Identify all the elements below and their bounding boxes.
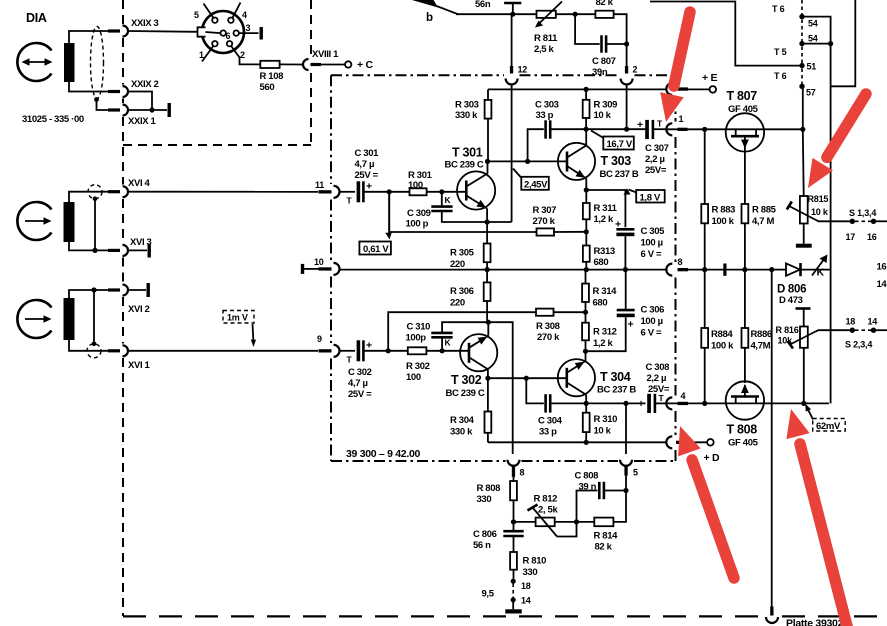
chassis terminal bar (XVI2)	[147, 283, 150, 297]
svg-text:K: K	[817, 267, 825, 279]
svg-text:R313: R313	[594, 246, 615, 257]
svg-text:BC 239 C: BC 239 C	[446, 388, 485, 399]
wire R302 to T302 base	[426, 350, 469, 352]
jack XVI 3	[123, 245, 129, 256]
T304 base rail	[488, 377, 567, 379]
svg-text:17: 17	[846, 232, 856, 242]
svg-text:R884: R884	[711, 329, 733, 340]
svg-text:4: 4	[242, 10, 247, 20]
node T302 emitter	[486, 320, 491, 325]
svg-text:62mV: 62mV	[816, 421, 841, 432]
label 0,61V box with leader	[359, 194, 391, 255]
svg-text:XXIX 1: XXIX 1	[128, 116, 157, 127]
svg-text:57: 57	[806, 88, 816, 98]
svg-text:C 310: C 310	[407, 322, 431, 333]
svg-text:S 1,3,4: S 1,3,4	[849, 208, 876, 218]
transistor T302	[460, 322, 497, 378]
svg-text:C 806: C 806	[473, 529, 497, 540]
jack 8 right	[666, 264, 672, 276]
wire pin to +C	[321, 64, 345, 66]
node R313/R314	[584, 267, 589, 272]
jack 8 bottom	[508, 460, 520, 466]
svg-text:39n: 39n	[592, 67, 608, 78]
svg-text:BC 237 B: BC 237 B	[597, 385, 636, 396]
svg-text:1m V: 1m V	[227, 313, 248, 323]
chassis terminal bar (XVI3)	[148, 244, 151, 258]
jack 5 lead	[625, 403, 627, 454]
svg-text:R 305: R 305	[450, 248, 475, 259]
node T302 collector	[485, 376, 490, 381]
svg-text:5: 5	[633, 468, 638, 478]
wire contact54 upper to bus	[802, 17, 831, 404]
wire cartridge bottom to XVI1	[69, 340, 108, 351]
label 2,45V box with leader	[513, 169, 549, 191]
svg-text:1,2 k: 1,2 k	[593, 338, 613, 349]
node C304 branch	[524, 376, 529, 381]
jack 4	[666, 397, 672, 409]
wire cartridge bottom to XXIX2	[69, 82, 108, 92]
potentiometer R811 2,5k	[535, 2, 562, 28]
svg-text:2,5 k: 2,5 k	[534, 44, 554, 55]
svg-text:10: 10	[314, 257, 324, 267]
svg-text:C 301: C 301	[355, 148, 380, 159]
R816 bottom lead	[803, 348, 805, 404]
svg-text:18: 18	[846, 317, 856, 327]
Platte return line	[771, 270, 773, 607]
svg-text:54: 54	[808, 34, 818, 44]
svg-text:R 812: R 812	[534, 494, 558, 505]
pin XXIX 1	[108, 108, 120, 111]
terminal bar stub on rail	[723, 264, 726, 276]
svg-text:+: +	[638, 398, 644, 410]
emitter to C305 wire	[586, 190, 625, 227]
module border left	[330, 75, 332, 461]
jack 12	[510, 66, 513, 74]
DIN connector keyway notch	[198, 28, 205, 36]
svg-text:56n: 56n	[475, 0, 491, 10]
emitter jog to jack 8 bottom	[488, 322, 512, 454]
terminal +E	[710, 86, 717, 93]
node R816 bottom / 62mV	[801, 401, 806, 406]
svg-text:8: 8	[520, 468, 525, 478]
chassis dashed line x=311 upper	[310, 0, 312, 56]
DIN pin 4	[228, 18, 233, 23]
wire XXIX1 to chassis	[128, 109, 167, 111]
svg-text:51: 51	[807, 62, 817, 72]
wire cartridge top to XXIX3	[69, 31, 108, 43]
svg-text:270 k: 270 k	[537, 332, 560, 343]
wire contact54 lower to bus	[802, 43, 831, 45]
label 1mV dashed box	[223, 311, 254, 324]
wire cartridge top to XVI2	[69, 290, 108, 298]
svg-text:+ C: + C	[357, 59, 373, 71]
svg-text:33 p: 33 p	[536, 110, 554, 121]
svg-text:K: K	[445, 195, 452, 205]
svg-text:5: 5	[194, 10, 199, 20]
svg-text:25V=: 25V=	[648, 384, 670, 395]
pin XXIX 2	[108, 90, 120, 93]
svg-text:18: 18	[521, 581, 531, 591]
jack XVIII 1	[303, 59, 309, 70]
stub terminal left of jack 10	[304, 268, 319, 270]
svg-text:T 808: T 808	[727, 423, 758, 437]
node R308 base branch	[386, 348, 391, 353]
node T301 emitter	[485, 219, 490, 224]
DIN pin 6	[221, 30, 226, 35]
svg-text:XXIX 3: XXIX 3	[131, 18, 159, 29]
svg-text:+ D: + D	[704, 452, 720, 464]
wire C302 to R302	[363, 350, 407, 352]
svg-text:16,7 V: 16,7 V	[607, 139, 633, 150]
jack XXIX 2	[123, 86, 129, 97]
transistor T808 GF405	[666, 381, 829, 419]
wire jack to +D	[687, 441, 707, 443]
marker b with arrow	[412, 0, 458, 24]
node R883/R884	[702, 267, 707, 272]
capacitor C310 100p	[431, 322, 488, 351]
DIN pin 1	[212, 41, 217, 46]
jack XVI 1	[123, 345, 128, 356]
node C807 left branch	[573, 12, 578, 17]
R815 ground	[796, 224, 812, 248]
svg-text:25V =: 25V =	[348, 389, 372, 400]
node T301 base branch	[387, 189, 392, 194]
wire XVI1 to module jack 9	[128, 350, 318, 352]
resistor R883 100k	[701, 129, 708, 269]
red arrow 1 (pin 1)	[660, 12, 690, 122]
node R305/R306	[485, 267, 490, 272]
resistor R310 10k	[583, 403, 590, 442]
svg-text:D 473: D 473	[779, 295, 803, 306]
svg-text:4: 4	[681, 391, 686, 401]
capacitor C307 2,2u	[637, 119, 666, 140]
wire R308 to R314/R312 node	[554, 311, 586, 313]
DIN connector circle	[202, 11, 244, 53]
svg-text:C 307: C 307	[645, 143, 669, 154]
jack 7	[666, 83, 672, 95]
svg-text:6 V =: 6 V =	[641, 328, 662, 339]
svg-text:560: 560	[260, 82, 275, 93]
jack XVI 2	[123, 285, 129, 296]
output rail (T303 collector node)	[550, 128, 645, 130]
pin 3 terminal bar	[260, 27, 263, 40]
svg-text:R 304: R 304	[450, 415, 475, 426]
capacitor 56n stub	[504, 3, 521, 14]
node C303 branch	[525, 159, 530, 164]
switch S1,3,4	[850, 219, 887, 224]
svg-text:220: 220	[450, 259, 465, 270]
svg-text:4,7 M: 4,7 M	[752, 216, 774, 227]
transistor T303	[558, 129, 595, 190]
svg-text:R 883: R 883	[712, 205, 736, 216]
svg-text:R 810: R 810	[523, 556, 547, 567]
svg-text:100 p: 100 p	[406, 219, 429, 230]
node R309 top	[584, 87, 589, 92]
svg-text:39 n: 39 n	[579, 482, 597, 493]
wire jack9 to C302	[340, 350, 356, 352]
contact 14	[511, 597, 516, 602]
svg-text:330 k: 330 k	[450, 427, 473, 438]
switch contact column dashed	[801, 0, 803, 84]
svg-text:4,7 µ: 4,7 µ	[355, 159, 375, 170]
DIN pin 2	[227, 41, 232, 46]
contact 51	[799, 63, 804, 68]
label 62mV dashed box with leader	[804, 404, 845, 432]
svg-text:1,8 V: 1,8 V	[640, 192, 661, 203]
node R310 bottom	[584, 440, 589, 445]
svg-text:330: 330	[523, 567, 538, 578]
svg-text:R 312: R 312	[593, 327, 617, 338]
switch S2,3,4	[850, 328, 887, 333]
switch gap 9,5	[512, 584, 514, 598]
svg-text:S 2,3,4: S 2,3,4	[845, 340, 872, 350]
svg-text:XVIII 1: XVIII 1	[312, 49, 339, 60]
shield tap dots and wire to XVI3	[93, 196, 98, 201]
svg-text:T: T	[347, 355, 353, 365]
node R812/R814	[574, 519, 579, 524]
node R885/R886	[742, 267, 747, 272]
svg-text:1: 1	[679, 114, 684, 124]
svg-text:33 p: 33 p	[539, 427, 557, 438]
jack 2	[625, 66, 628, 74]
svg-text:T 304: T 304	[600, 370, 631, 384]
svg-text:C 309: C 309	[407, 208, 431, 219]
jack Platte (bottom border)	[766, 617, 778, 623]
svg-text:R886: R886	[751, 329, 772, 340]
DIN pin 5	[212, 18, 217, 23]
wire cartridge top to XVI4	[69, 192, 108, 202]
svg-text:12: 12	[518, 65, 528, 75]
node K upper	[439, 189, 444, 194]
svg-text:1,2 k: 1,2 k	[594, 214, 614, 225]
marker K arrow	[812, 255, 828, 279]
terminal +D	[707, 439, 714, 446]
node R309 bottom	[584, 127, 589, 132]
wire 57 elbow to right box edge	[831, 0, 856, 86]
svg-text:2: 2	[240, 50, 245, 60]
wire XVI2 to chassis	[128, 289, 146, 291]
+D supply rail	[488, 441, 666, 443]
node T807 rail right	[800, 127, 805, 132]
svg-text:R 302: R 302	[406, 361, 430, 372]
svg-text:T 6: T 6	[774, 71, 787, 81]
svg-text:220: 220	[450, 298, 465, 309]
wire cartridge bottom to XVI3	[69, 242, 108, 250]
shield tap node	[94, 97, 99, 102]
resistor R306 220	[484, 270, 491, 323]
svg-text:16: 16	[877, 262, 887, 273]
wire emitter to jack12 lead	[487, 221, 512, 223]
svg-text:R 303: R 303	[455, 100, 479, 111]
wire shield to XXIX1	[97, 100, 109, 111]
resistor R311 1,2k	[583, 190, 590, 246]
contact 54 upper	[799, 14, 804, 19]
red arrow 3 (pin 4)	[678, 426, 734, 578]
emitter to C306 wire	[586, 317, 626, 351]
module border 39300-942.00 (dash-dot) top	[331, 74, 676, 76]
resistor R304 330k	[485, 378, 492, 442]
pickup source symbol (XVI 2/1)	[17, 300, 51, 338]
red arrow 2 (R815)	[808, 94, 866, 188]
module border right	[675, 75, 677, 461]
svg-text:100: 100	[408, 180, 423, 191]
transistor T304	[558, 351, 595, 403]
svg-text:11: 11	[315, 180, 324, 190]
svg-text:39 300 – 9 42.00: 39 300 – 9 42.00	[346, 448, 420, 460]
node C808/jack5	[623, 488, 628, 493]
svg-text:R 308: R 308	[536, 321, 560, 332]
svg-text:31025 - 335 ·00: 31025 - 335 ·00	[22, 114, 84, 125]
node T301 collector	[485, 159, 490, 164]
jack 12 upper lead	[511, 14, 513, 66]
jack XVI 4	[123, 186, 129, 197]
svg-text:XVI 4: XVI 4	[128, 178, 151, 189]
svg-text:b: b	[426, 12, 433, 24]
transistor T807 GF405	[666, 113, 803, 151]
shield circle (XVI1 wire)	[87, 344, 101, 358]
chassis bottom dashed border	[123, 615, 887, 617]
svg-text:D 806: D 806	[777, 284, 806, 296]
contact 54 lower	[799, 41, 804, 46]
svg-text:3: 3	[246, 23, 251, 33]
svg-text:2: 2	[633, 65, 638, 75]
svg-text:100 µ: 100 µ	[641, 238, 663, 249]
right reference rail	[688, 269, 772, 271]
capacitor C302 4,7u	[347, 340, 373, 365]
svg-text:100 k: 100 k	[711, 341, 734, 352]
svg-text:14: 14	[868, 317, 878, 327]
pin XXIX 3	[108, 29, 120, 32]
svg-text:14: 14	[877, 279, 887, 290]
svg-text:14: 14	[521, 596, 531, 606]
capacitor C808 39n	[577, 482, 627, 522]
svg-text:C 302: C 302	[348, 367, 372, 378]
svg-text:2,2 µ: 2,2 µ	[647, 373, 667, 384]
svg-text:C 308: C 308	[646, 362, 670, 373]
pin XVI 3	[108, 249, 120, 252]
wire R811 to 82k	[556, 13, 596, 15]
node T303 emitter	[584, 187, 589, 192]
node R884 bottom	[702, 401, 707, 406]
cable shield ellipse (DIA)	[91, 27, 104, 99]
pin XVI 1	[108, 349, 120, 352]
red arrow 4 (62mV node)	[786, 409, 847, 626]
svg-text:9,5: 9,5	[482, 589, 495, 600]
node R883 top	[702, 127, 707, 132]
label 1,8V box with leader	[624, 188, 665, 203]
svg-text:R 311: R 311	[594, 203, 618, 214]
leader 1mV arrow	[253, 324, 254, 344]
pin Platte jack	[770, 607, 773, 616]
svg-text:T 303: T 303	[601, 154, 632, 168]
svg-text:330 k: 330 k	[455, 110, 478, 121]
svg-text:82 k: 82 k	[595, 542, 613, 553]
pin XVIII 1	[311, 63, 322, 66]
resistor R108	[260, 61, 279, 68]
capacitor C304 33p	[526, 378, 550, 412]
svg-text:R 885: R 885	[752, 205, 777, 216]
resistor R309 10k	[583, 89, 590, 129]
svg-text:T: T	[347, 196, 353, 206]
resistor R305 220	[484, 222, 491, 270]
svg-text:330: 330	[477, 494, 492, 505]
resistor R307 270k	[537, 228, 555, 235]
jack 5 lower lead	[625, 476, 627, 491]
node R307 junction	[584, 229, 589, 234]
resistor R885 4,7M	[742, 148, 749, 270]
svg-text:6: 6	[226, 31, 231, 41]
svg-text:+: +	[366, 181, 372, 193]
node bus junction 54	[828, 41, 833, 46]
svg-text:R 814: R 814	[594, 531, 619, 542]
capacitor C309 100p	[431, 192, 487, 222]
svg-text:2,45V: 2,45V	[524, 179, 548, 190]
pin XVI 2	[108, 288, 120, 291]
svg-text:C 303: C 303	[535, 100, 559, 111]
jack 2 lead down	[626, 85, 628, 130]
jack 11	[319, 190, 332, 193]
lower output rail	[550, 402, 645, 404]
resistor R884 100k	[701, 270, 708, 404]
svg-text:T 301: T 301	[452, 146, 483, 160]
svg-text:270 k: 270 k	[533, 216, 556, 227]
cartridge element (black rect, XVI4/3)	[64, 202, 75, 242]
svg-text:XVI 2: XVI 2	[128, 304, 150, 315]
potentiometer R815 10k	[787, 196, 852, 224]
jack 12 lead down to feedback rail	[511, 85, 513, 223]
svg-text:100 k: 100 k	[712, 216, 735, 227]
svg-text:R 307: R 307	[533, 205, 557, 216]
node R314/R312/R308	[583, 310, 588, 315]
resistor R808 330	[510, 477, 517, 522]
svg-text:82 k: 82 k	[596, 0, 614, 8]
capacitor C308 2,2u	[638, 393, 666, 413]
DIN pin 3	[234, 30, 239, 35]
svg-text:10k: 10k	[778, 336, 794, 346]
feedback wire top	[456, 13, 537, 15]
svg-text:XVI 1: XVI 1	[128, 360, 151, 371]
jack 9	[319, 349, 332, 352]
chassis terminal bar (XXIX1)	[168, 103, 171, 117]
svg-text:0,61 V: 0,61 V	[363, 244, 389, 255]
contact 18	[511, 579, 516, 584]
capacitor C305 100u	[615, 219, 634, 270]
jack XXIX 1	[123, 105, 129, 116]
svg-text:T 5: T 5	[774, 47, 787, 57]
node T304 emitter	[583, 349, 588, 354]
terminal +C	[345, 61, 351, 67]
wire 82k to jack2 drop	[614, 14, 627, 66]
svg-text:10 k: 10 k	[811, 207, 829, 217]
svg-text:C 807: C 807	[592, 56, 616, 67]
potentiometer R812 2,5k	[514, 505, 595, 537]
svg-text:R 306: R 306	[450, 286, 474, 297]
svg-text:R 808: R 808	[477, 483, 501, 494]
diode D806 D473	[772, 263, 831, 276]
wire XXIX3 to DIN connector	[128, 30, 198, 33]
node R808/C806/R812	[511, 519, 516, 524]
node jack5 on rail	[623, 401, 628, 406]
svg-text:R 816: R 816	[776, 325, 799, 335]
svg-text:BC 239 C: BC 239 C	[445, 160, 484, 171]
svg-text:100 µ: 100 µ	[641, 316, 663, 327]
mid reference rail	[340, 269, 667, 271]
svg-text:R 314: R 314	[593, 286, 618, 297]
collector rail to T303 base	[488, 160, 568, 162]
capacitor C303 33p	[528, 120, 551, 161]
ground symbol	[505, 600, 521, 614]
svg-text:T 302: T 302	[451, 373, 482, 387]
